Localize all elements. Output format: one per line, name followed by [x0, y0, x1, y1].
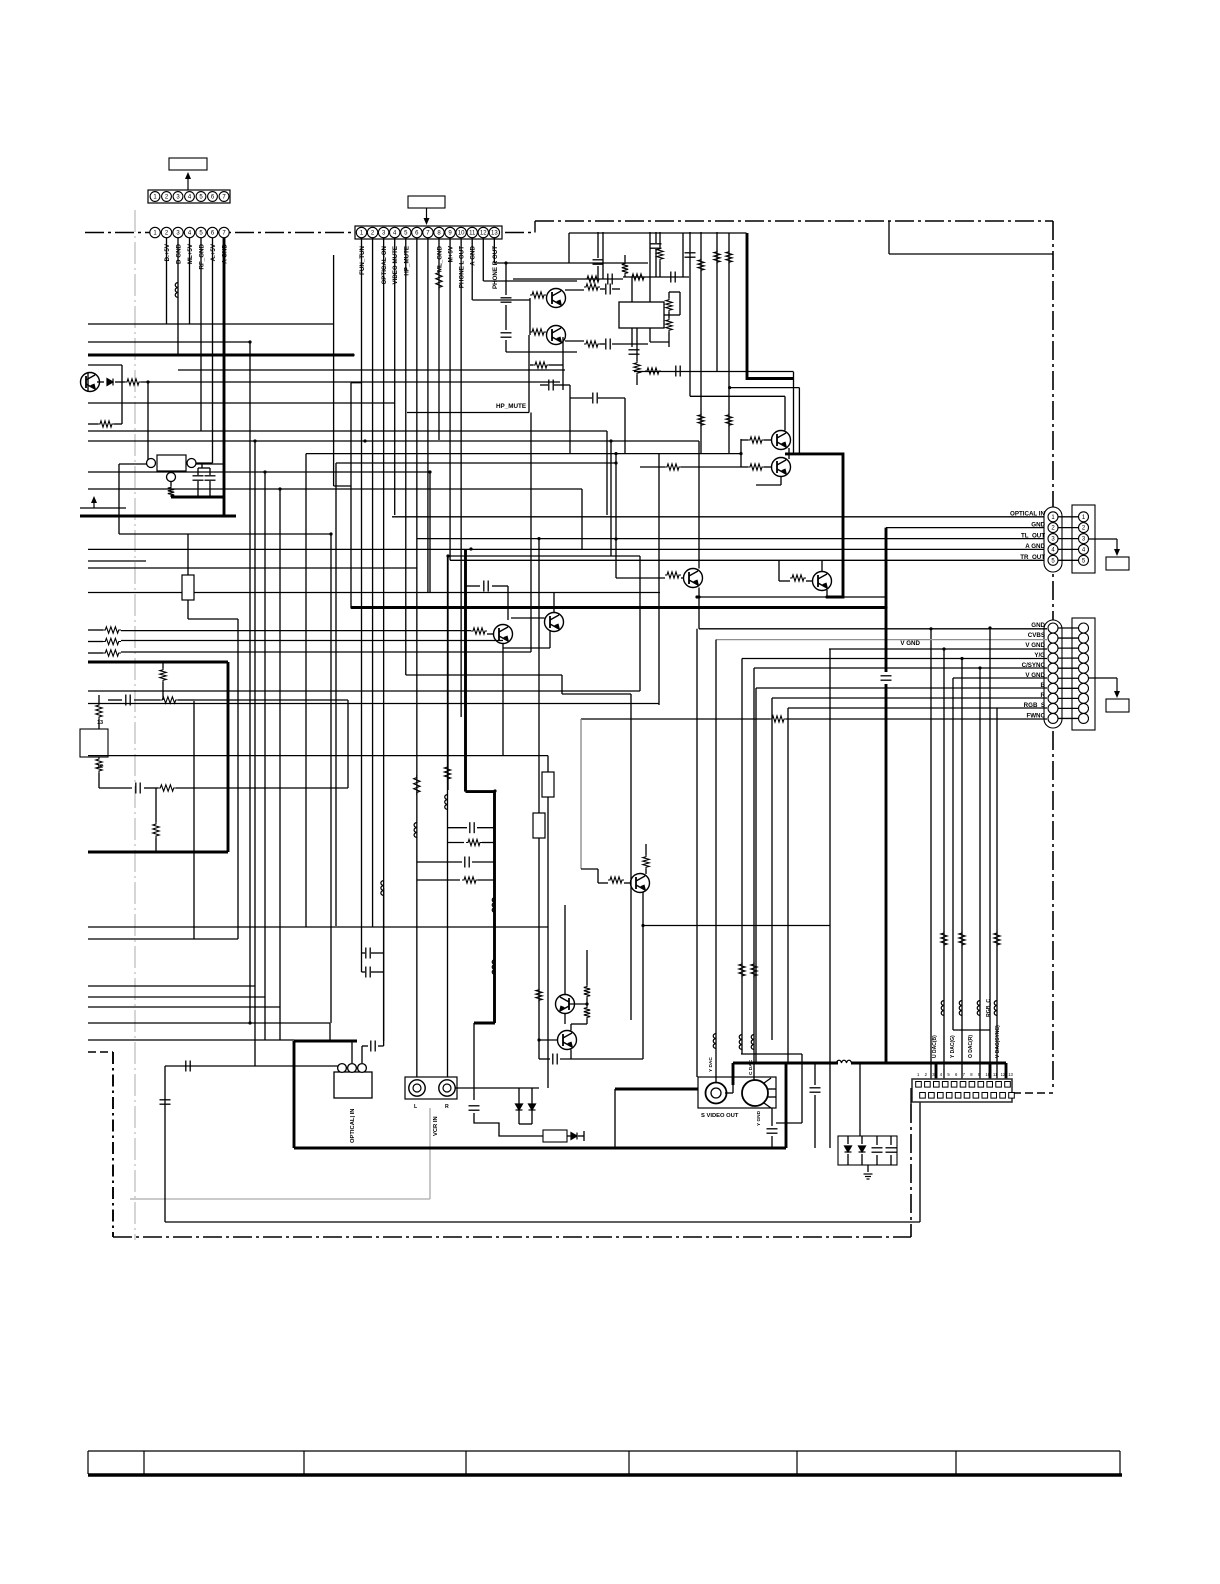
wire pin9 TR	[449, 238, 451, 561]
CN13 top pin 3	[934, 1082, 940, 1088]
resistor	[665, 572, 681, 578]
wire pin7	[427, 238, 429, 592]
wire pin6	[416, 238, 418, 1079]
inductor	[492, 960, 495, 975]
resistor	[103, 638, 121, 644]
wire	[564, 1014, 566, 1025]
wire	[144, 787, 158, 789]
wire	[624, 398, 626, 454]
wire	[447, 556, 449, 790]
connector J2 pin 5	[401, 227, 411, 237]
wire	[88, 560, 146, 562]
resistor	[530, 329, 546, 335]
diode cluster box	[838, 1136, 897, 1165]
wire	[655, 249, 657, 277]
transistor Q6	[772, 431, 791, 450]
resistor	[471, 628, 487, 634]
wire	[417, 861, 462, 863]
wire	[119, 463, 147, 465]
connector J2 housing	[355, 226, 502, 239]
resistor	[608, 877, 624, 883]
connector J1 pin 4	[185, 192, 195, 202]
wire	[98, 773, 100, 788]
resistor	[462, 877, 478, 883]
capacitor	[366, 948, 370, 959]
wire	[134, 699, 160, 701]
svg-text:OPTICAL| IN: OPTICAL| IN	[350, 1109, 356, 1143]
wire	[784, 396, 786, 430]
wire	[477, 827, 495, 829]
footer table bottom line	[88, 1473, 1122, 1477]
footer table divider	[143, 1451, 145, 1474]
wire	[88, 341, 250, 343]
thick centre bus lower	[493, 792, 496, 1023]
wire	[547, 797, 549, 1088]
wire	[487, 633, 493, 635]
module boundary chain line bottom-left	[112, 1052, 114, 1237]
resistor	[153, 822, 159, 838]
wire	[505, 340, 507, 352]
transistor Q7	[772, 458, 791, 477]
thick stub	[1005, 1063, 1008, 1079]
U1 bottom pin	[167, 473, 176, 482]
wire	[88, 1039, 294, 1041]
CN13 bottom pin 3	[938, 1093, 944, 1099]
wire	[506, 351, 577, 353]
junction	[942, 647, 945, 650]
diode	[516, 1104, 523, 1110]
wire	[549, 631, 551, 648]
footer table divider	[628, 1451, 630, 1474]
wire	[634, 371, 794, 373]
resistor	[665, 464, 681, 470]
wire	[176, 787, 348, 789]
inductor	[751, 1035, 754, 1050]
S-video jack outer	[706, 1083, 727, 1104]
U1 left pin	[147, 459, 156, 468]
wire PHONE R OUT	[495, 262, 649, 264]
transistor Q9	[684, 569, 703, 588]
module boundary chain line lower	[910, 1104, 912, 1237]
resistor	[634, 361, 640, 375]
wire staircase	[330, 534, 332, 1023]
wire	[528, 335, 530, 413]
wire OPTICAL-ON	[383, 238, 385, 1046]
junction	[253, 439, 256, 442]
wire	[538, 539, 540, 1059]
inductor	[977, 1001, 980, 1016]
wire	[867, 1165, 869, 1172]
wire	[681, 577, 684, 579]
wire OPTICAL IN	[392, 516, 1047, 518]
resistor R box2	[543, 1130, 567, 1142]
transistor Q1	[81, 373, 100, 392]
wire	[88, 641, 103, 643]
wire	[249, 342, 251, 1023]
wire	[197, 468, 199, 475]
wire FUN_TUN	[361, 238, 363, 953]
svg-text:PHONE R OUT: PHONE R OUT	[492, 246, 499, 289]
wire	[756, 484, 781, 486]
svg-text:D.+5V: D.+5V	[164, 243, 171, 261]
wire	[406, 674, 562, 676]
thick bus lower	[885, 684, 888, 1063]
connector J2 pin 4	[390, 227, 400, 237]
CN13 bottom pin 6	[964, 1093, 970, 1099]
capacitor	[549, 380, 553, 391]
junction	[146, 380, 149, 383]
CN5 pin 2	[1048, 523, 1058, 533]
inductor	[994, 1001, 997, 1016]
wire	[989, 628, 991, 1063]
junction	[537, 537, 540, 540]
wire	[597, 232, 599, 258]
CN5b pin 4	[1079, 544, 1089, 554]
gray wire	[429, 1108, 431, 1199]
connector J2 pin 3	[378, 227, 388, 237]
wire	[699, 596, 886, 598]
wire	[570, 1050, 572, 1060]
S-video DIN outer	[742, 1080, 768, 1106]
junction	[278, 487, 281, 490]
wire	[742, 466, 748, 468]
wire	[539, 1058, 550, 1060]
svg-text:S VIDEO OUT: S VIDEO OUT	[701, 1113, 739, 1119]
thick box bottom	[88, 851, 228, 854]
capacitor	[465, 857, 469, 868]
wire A.+5V	[200, 238, 202, 431]
wire	[448, 842, 465, 844]
wire Y/G	[742, 658, 1047, 660]
wire	[554, 384, 570, 386]
wire ML+5V	[177, 238, 179, 355]
pin link wire	[1058, 527, 1079, 529]
resistor	[584, 985, 590, 998]
wire	[361, 953, 363, 972]
wire	[88, 423, 98, 425]
resistor	[98, 421, 114, 427]
wire	[119, 533, 331, 535]
junction	[428, 470, 431, 473]
svg-text:13: 13	[491, 231, 498, 237]
capacitor	[186, 1061, 190, 1072]
footer table divider	[87, 1451, 89, 1474]
gray wire	[130, 1198, 430, 1200]
diode	[529, 1104, 536, 1110]
CN10 pin 4	[1048, 653, 1058, 663]
diode	[859, 1146, 866, 1152]
CN13 top pin 6	[960, 1082, 966, 1088]
connector J2 pin 1	[356, 227, 366, 237]
wire	[716, 232, 718, 371]
CN13 bottom pin 4	[946, 1093, 952, 1099]
wire	[178, 699, 194, 701]
wire RF_GND	[189, 238, 191, 324]
fold line gray	[134, 210, 136, 1240]
junction	[493, 789, 496, 792]
board edge pin 2	[161, 227, 171, 237]
wire	[237, 619, 239, 939]
svg-text:12: 12	[1001, 1072, 1006, 1077]
capacitor	[651, 244, 662, 248]
inductor	[959, 1001, 962, 1016]
diode	[107, 379, 113, 386]
wire	[779, 580, 790, 582]
wire	[198, 467, 210, 469]
wire	[383, 888, 385, 1041]
resistor	[751, 962, 757, 978]
reference box CN10	[1106, 699, 1129, 712]
inductor	[739, 1035, 742, 1050]
pin link wire	[1058, 677, 1079, 679]
resistor	[530, 292, 546, 298]
wire	[876, 1136, 878, 1145]
wire	[482, 842, 495, 844]
module boundary chain stub	[1013, 1092, 1053, 1094]
wire	[649, 328, 651, 342]
resistor	[103, 650, 121, 656]
jack pin	[767, 1088, 776, 1090]
wire	[700, 232, 702, 454]
wire	[586, 998, 588, 1006]
pin link wire	[1058, 697, 1079, 699]
resistor	[726, 250, 732, 264]
footer table divider	[303, 1451, 305, 1474]
wire	[565, 340, 584, 342]
wire	[725, 1092, 733, 1094]
wire Q1 output	[141, 381, 560, 383]
wire	[764, 439, 771, 441]
connector CN5 col2 housing	[1072, 505, 1095, 573]
CN10b pin 2	[1079, 633, 1089, 643]
wire	[329, 1023, 331, 1041]
resistor	[941, 931, 947, 947]
wire	[624, 275, 626, 277]
junction	[697, 595, 700, 598]
wire	[341, 1066, 343, 1071]
svg-text:13: 13	[1008, 1072, 1013, 1077]
resistor	[657, 247, 663, 261]
svg-text:Y DAC(G): Y DAC(G)	[950, 1035, 956, 1058]
CN10b pin 3	[1079, 643, 1089, 653]
connector J2 pin 8	[434, 227, 444, 237]
junction	[614, 452, 617, 455]
resistor	[994, 931, 1000, 947]
CN13 bottom pin 7	[973, 1093, 979, 1099]
wire	[472, 861, 495, 863]
wire	[953, 1029, 990, 1031]
svg-text:V GND: V GND	[1025, 642, 1045, 649]
wire VCR R feed	[447, 556, 449, 1079]
svg-text:12: 12	[480, 231, 487, 237]
wire	[771, 1108, 773, 1126]
wire	[170, 496, 172, 498]
wire	[99, 787, 132, 789]
capacitor	[126, 695, 130, 706]
capacitor	[205, 476, 216, 480]
gray CVBS wire	[716, 639, 1047, 641]
connector CN10 col1 housing	[1044, 620, 1062, 728]
transistor Q8	[813, 572, 832, 591]
CN10 pin 2	[1048, 633, 1058, 643]
wire	[88, 938, 238, 940]
wire V GND	[829, 648, 1047, 650]
svg-text:PHONE L OUT: PHONE L OUT	[459, 246, 466, 288]
svg-text:A GND: A GND	[470, 245, 477, 265]
module boundary chain line bottom	[113, 1236, 911, 1238]
module boundary chain line top	[535, 220, 1053, 222]
wire	[586, 950, 588, 985]
wire	[778, 560, 780, 581]
wire	[569, 1003, 587, 1005]
wire	[771, 1136, 773, 1148]
wire	[362, 1045, 368, 1047]
wire	[530, 364, 533, 366]
reference box bottom edge	[889, 253, 1053, 255]
inductor	[381, 881, 384, 896]
wire	[741, 659, 743, 1055]
CN10 pin 6	[1048, 673, 1058, 683]
capacitor	[470, 822, 474, 833]
junction	[329, 532, 332, 535]
CN13 top pin 4	[942, 1082, 948, 1088]
wire	[961, 659, 963, 1085]
wire	[570, 1024, 572, 1031]
capacitor	[608, 274, 612, 285]
wire	[910, 1088, 912, 1104]
wire	[347, 700, 349, 788]
thick stub	[989, 1063, 992, 1080]
junction	[884, 606, 887, 609]
connector J2 pin 6	[412, 227, 422, 237]
resistor	[160, 668, 166, 682]
junction	[350, 606, 353, 609]
board edge pin 3	[173, 227, 183, 237]
wire B	[756, 687, 1047, 689]
wire	[162, 662, 164, 668]
wire	[492, 585, 508, 587]
svg-text:CVBS: CVBS	[1028, 632, 1045, 639]
svg-text:A GND: A GND	[1025, 543, 1045, 550]
inductor	[713, 1034, 716, 1049]
CN13 top pin 11	[1005, 1082, 1011, 1088]
resistor	[770, 716, 786, 722]
CN13 top pin 2	[925, 1082, 931, 1088]
CN5b pin 2	[1079, 523, 1089, 533]
wire	[361, 1046, 363, 1063]
resistor	[96, 757, 102, 773]
wire	[631, 277, 633, 302]
pin link wire	[1058, 627, 1079, 629]
wire	[88, 364, 122, 366]
wire	[505, 305, 507, 330]
wire	[614, 1089, 616, 1148]
svg-text:U DAC(B): U DAC(B)	[932, 1035, 938, 1058]
reference box left edge	[888, 221, 890, 254]
wire	[165, 1065, 342, 1067]
wire	[561, 675, 563, 694]
VCR R jack inner	[443, 1084, 451, 1092]
wire rail	[513, 278, 623, 280]
wire	[612, 343, 648, 345]
resistor	[622, 262, 628, 275]
wire	[187, 534, 189, 575]
wire	[209, 481, 211, 497]
resistor	[748, 464, 764, 470]
wire	[689, 232, 691, 396]
resistor	[533, 362, 549, 368]
svg-text:10: 10	[458, 231, 465, 237]
wire	[108, 699, 122, 701]
wire	[741, 1053, 802, 1055]
wire to ref	[1089, 538, 1117, 540]
svg-text:GND: GND	[1031, 521, 1045, 528]
junction	[248, 340, 251, 343]
jack diagonal	[764, 1103, 771, 1108]
resistor	[666, 318, 672, 332]
gray wire	[580, 719, 582, 869]
wire	[643, 925, 830, 927]
wire	[821, 560, 823, 571]
resistor	[584, 341, 600, 347]
CN13 bottom pin 5	[955, 1093, 961, 1099]
inductor	[492, 898, 495, 913]
CN5b pin 1	[1079, 512, 1089, 522]
wire	[334, 485, 351, 487]
capacitor	[553, 1054, 557, 1065]
wire	[586, 1019, 588, 1024]
pin link wire	[1058, 637, 1079, 639]
CN10b pin 5	[1079, 663, 1089, 673]
wire	[612, 288, 620, 290]
connector J1 pin 2	[162, 192, 172, 202]
svg-text:ML+5V: ML+5V	[187, 243, 194, 264]
wire	[164, 1066, 166, 1222]
connector J2 pin 11	[467, 227, 477, 237]
capacitor	[767, 1129, 778, 1133]
wire	[539, 1039, 558, 1041]
wire	[362, 971, 366, 973]
resistor	[414, 775, 420, 795]
transistor Q10	[494, 625, 513, 644]
CN13 top pin 5	[951, 1082, 957, 1088]
svg-text:RGB_C: RGB_C	[986, 999, 992, 1017]
wire	[562, 693, 631, 695]
wire	[581, 489, 583, 549]
transistor Q3	[547, 326, 566, 345]
wire	[162, 682, 164, 700]
diode	[845, 1146, 852, 1152]
wire HP_MUTE	[405, 238, 407, 675]
wire	[371, 952, 384, 954]
transistor Q2	[547, 289, 566, 308]
wire	[780, 477, 782, 485]
wire	[188, 618, 238, 620]
pin link wire	[1058, 538, 1079, 540]
pin link wire	[1058, 559, 1079, 561]
connector CN13 housing	[912, 1079, 1012, 1102]
wire emitter	[826, 590, 828, 597]
svg-text:OPTICAL IN: OPTICAL IN	[1010, 511, 1045, 518]
resistor	[160, 697, 178, 703]
reference box J2	[408, 196, 445, 208]
wire	[193, 701, 195, 939]
CN10b pin 6	[1079, 673, 1089, 683]
svg-text:V GND: V GND	[900, 640, 920, 647]
svg-text:13: 13	[97, 720, 103, 726]
svg-text:Y GND: Y GND	[756, 1110, 762, 1126]
optical pin 1	[338, 1064, 347, 1073]
